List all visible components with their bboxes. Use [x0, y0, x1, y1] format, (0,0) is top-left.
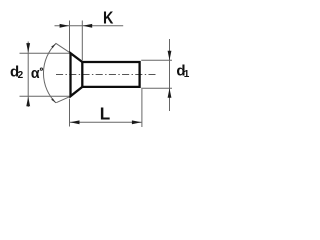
svg-text:L: L [100, 103, 111, 124]
svg-text:K: K [103, 8, 114, 28]
svg-text:2: 2 [18, 70, 24, 81]
svg-text:α: α [31, 66, 40, 82]
svg-text:1: 1 [184, 69, 190, 80]
